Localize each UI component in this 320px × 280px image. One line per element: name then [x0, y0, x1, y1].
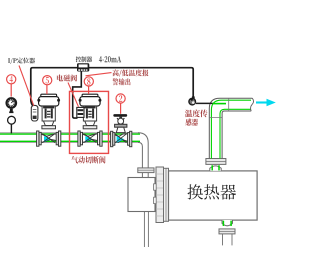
gate valve bonnet: [115, 124, 127, 127]
heat exchanger top nozzle neck: [210, 166, 221, 171]
label: 控制器: [76, 56, 92, 62]
red enclosure box around shut-off valve: [70, 91, 109, 153]
control valve actuator case: [39, 97, 59, 106]
control valve actuator diaphragm top cap: [82, 94, 98, 97]
label: 感器: [185, 119, 198, 126]
cyan flow wedge: [85, 136, 92, 142]
callout circle 4: [7, 75, 16, 84]
callout circle 5: [43, 76, 52, 85]
pipe seam lines at elbow: [209, 98, 228, 117]
callout circle 2: [116, 94, 125, 103]
wire: process pipe outline edges: [0, 133, 139, 143]
outlet pipe riser from exchanger: [209, 98, 252, 158]
label: 高/低温度报: [113, 69, 149, 76]
valve bonnet: [85, 121, 95, 126]
leader line: solenoid valve label: [68, 83, 79, 107]
gate valve handwheel: [113, 114, 127, 117]
control valve actuator case: [80, 97, 100, 106]
label: 电磁阀: [57, 75, 77, 82]
leader line: alarm output label: [86, 73, 112, 76]
gate valve body: [112, 134, 131, 143]
green flow lines in outlet pipe: [211, 100, 251, 158]
gate valve stem cross: [117, 118, 124, 125]
wire: controller to solenoid valve: [73, 72, 82, 119]
flange on bottom outlet pipe: [219, 229, 235, 234]
wire: main green process pipe: [0, 134, 140, 141]
control valve actuator diaphragm top cap: [41, 94, 57, 97]
wire: drain pipe below channel box: [144, 212, 148, 248]
wire: temperature sensor stub: [196, 102, 213, 104]
actuator flange bolt dots: [37, 99, 40, 102]
pressure gauge: [7, 98, 17, 108]
valve line flanges: [37, 131, 39, 146]
label: 温度传: [185, 110, 208, 118]
actuator flange bolt dots: [79, 99, 82, 102]
label: 4-20mA: [99, 56, 121, 62]
valve body with seat: [80, 133, 99, 142]
wire: pipe stub into channel box: [142, 173, 148, 178]
heat exchanger channel box: [128, 178, 155, 212]
wire: pipe elbow to heat exchanger channel: [138, 133, 148, 168]
gauge siphon ring: [8, 116, 16, 124]
valve yoke: [42, 106, 55, 121]
leader line: I/P positioner label: [19, 66, 34, 106]
cyan flow wedge: [44, 136, 51, 142]
label: 气动切断阀: [71, 156, 105, 164]
wire: bottom outlet pipe: [223, 234, 233, 246]
temperature sensor: [189, 98, 196, 105]
heat exchanger bottom nozzle: [222, 220, 233, 226]
flange on exchanger top nozzle: [206, 159, 226, 165]
label: I/P定位器: [8, 58, 35, 64]
gauge stem: [10, 109, 13, 112]
pipe break symbol at outlet: [251, 98, 254, 111]
valve body with seat: [39, 133, 58, 142]
cyan flow arrow: [256, 101, 268, 103]
label: 换热器 (heat exchanger): [188, 184, 237, 199]
valve stem indicator bars: [45, 109, 47, 119]
valve bonnet: [44, 121, 54, 126]
heat exchanger shell: [169, 171, 258, 220]
valve line flanges: [78, 131, 80, 146]
valve yoke: [83, 106, 96, 121]
heat exchanger tube sheet flange strip: [156, 167, 164, 223]
wire: gauge tap to pipe: [10, 124, 12, 133]
label: 警输出: [113, 78, 131, 85]
valve stem indicator bars: [86, 109, 88, 119]
flange on exchanger inlet pipe: [138, 168, 154, 173]
gate valve flanges: [111, 131, 113, 146]
solenoid valve block on valve 2: [77, 107, 84, 117]
I/P positioner on valve 1: [31, 105, 38, 121]
controller box: [77, 63, 89, 71]
heat exchanger tube sheet strip 2: [164, 168, 169, 221]
callout circle 8: [84, 77, 93, 86]
wire: 4-20mA signal main line: [31, 68, 193, 106]
